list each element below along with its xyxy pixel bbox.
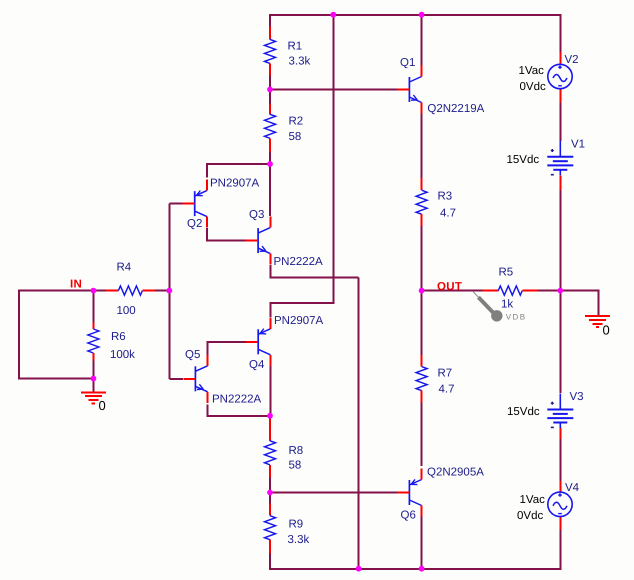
svg-text:PN2907A: PN2907A — [210, 178, 260, 190]
svg-text:0Vdc: 0Vdc — [520, 81, 546, 93]
svg-text:Q4: Q4 — [249, 359, 265, 371]
svg-text:PN2222A: PN2222A — [274, 256, 324, 268]
svg-text:V3: V3 — [570, 391, 584, 403]
svg-text:58: 58 — [289, 131, 302, 143]
svg-text:4.7: 4.7 — [439, 384, 455, 396]
svg-text:R1: R1 — [288, 41, 303, 53]
svg-text:58: 58 — [289, 460, 302, 472]
svg-text:100: 100 — [117, 305, 136, 317]
svg-text:100k: 100k — [110, 349, 135, 361]
svg-text:15Vdc: 15Vdc — [507, 154, 540, 166]
svg-text:0Vdc: 0Vdc — [517, 510, 543, 522]
svg-text:1Vac: 1Vac — [520, 494, 546, 506]
svg-text:0: 0 — [99, 398, 106, 413]
svg-text:3.3k: 3.3k — [288, 534, 310, 546]
svg-text:Q2N2905A: Q2N2905A — [427, 467, 484, 479]
svg-text:IN: IN — [70, 279, 82, 291]
svg-text:4.7: 4.7 — [440, 208, 456, 220]
svg-text:R3: R3 — [438, 190, 453, 202]
svg-text:0: 0 — [603, 323, 610, 338]
svg-text:R8: R8 — [289, 445, 304, 457]
svg-text:R4: R4 — [117, 262, 132, 274]
svg-text:R9: R9 — [289, 519, 304, 531]
svg-text:15Vdc: 15Vdc — [507, 406, 540, 418]
svg-text:3.3k: 3.3k — [289, 56, 311, 68]
svg-text:R6: R6 — [111, 331, 126, 343]
svg-text:VDB: VDB — [506, 313, 527, 322]
svg-text:PN2907A: PN2907A — [274, 315, 324, 327]
svg-text:1k: 1k — [501, 299, 513, 311]
svg-text:1Vac: 1Vac — [519, 65, 545, 77]
svg-text:V2: V2 — [565, 54, 579, 66]
svg-text:R5: R5 — [499, 267, 514, 279]
svg-text:Q2: Q2 — [187, 218, 202, 230]
svg-text:Q5: Q5 — [185, 349, 200, 361]
svg-text:Q1: Q1 — [400, 57, 415, 69]
svg-text:PN2222A: PN2222A — [212, 394, 262, 406]
svg-text:R2: R2 — [289, 116, 304, 128]
svg-text:R7: R7 — [438, 368, 453, 380]
svg-text:OUT: OUT — [437, 281, 462, 293]
svg-text:Q6: Q6 — [401, 510, 416, 522]
svg-text:Q2N2219A: Q2N2219A — [427, 103, 484, 115]
svg-text:V4: V4 — [565, 482, 580, 494]
svg-text:Q3: Q3 — [249, 209, 264, 221]
svg-text:V1: V1 — [571, 139, 585, 151]
